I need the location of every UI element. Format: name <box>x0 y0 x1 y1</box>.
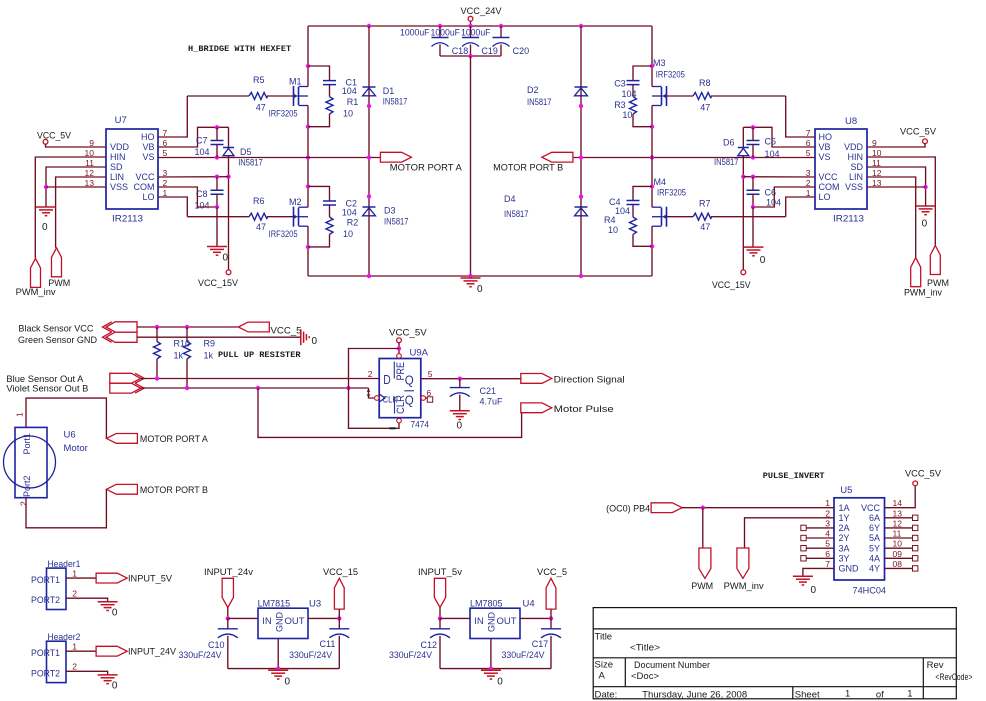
svg-text:5: 5 <box>163 148 168 158</box>
wire D4 branch <box>580 158 582 277</box>
wire C8 top stub <box>216 177 218 191</box>
no-connect square U5 right <box>913 566 918 571</box>
svg-text:VB: VB <box>142 142 154 152</box>
svg-text:U6: U6 <box>64 429 76 440</box>
junction VCC pin / bootstrap <box>226 175 230 179</box>
resistor R7 47 <box>693 213 711 220</box>
wire motor pin2 to port B <box>26 489 106 528</box>
svg-text:HO: HO <box>819 132 833 142</box>
svg-text:IN5817: IN5817 <box>714 157 739 167</box>
svg-text:2A: 2A <box>839 523 850 533</box>
svg-text:13: 13 <box>872 178 882 188</box>
junction R10 bottom <box>155 376 159 380</box>
svg-text:OUT: OUT <box>497 616 517 627</box>
svg-text:0: 0 <box>922 219 928 230</box>
svg-text:SD: SD <box>110 162 123 172</box>
svg-text:M4: M4 <box>654 177 667 187</box>
port INPUT_5v <box>434 578 445 607</box>
bubble CLR pin <box>397 418 402 423</box>
resistor R9 1k <box>184 342 191 359</box>
svg-text:0: 0 <box>223 253 229 264</box>
capacitor C19 1000uF <box>462 37 479 39</box>
junction right rail motor node <box>650 155 654 159</box>
port PWM_inv (U5 side) <box>737 548 749 578</box>
svg-text:0: 0 <box>42 222 48 233</box>
wire R5 to M1 gate <box>267 95 294 97</box>
port MOTOR PORT B (bridge) <box>542 152 573 162</box>
svg-text:C3: C3 <box>614 79 626 89</box>
wire C7 top stub <box>216 127 218 140</box>
wire U5 nc stub right <box>885 527 913 529</box>
svg-text:10: 10 <box>872 148 882 158</box>
wire M2 source to bottom rail <box>307 226 309 276</box>
ground U8 driver <box>744 247 764 256</box>
resistor R3 10 <box>630 97 637 114</box>
svg-text:47: 47 <box>700 222 710 232</box>
wire SD U8 to ground <box>867 167 926 206</box>
wire C2 to R2 <box>329 205 331 217</box>
wire U5 nc stub right <box>885 567 913 569</box>
transistor M1 IRF3205 <box>294 86 299 106</box>
power symbol VCC_5V U5 <box>913 481 918 486</box>
wire D5 anode to VCC_15V <box>228 156 230 270</box>
svg-text:2: 2 <box>806 178 811 188</box>
wire C18 bottom stub <box>439 45 441 57</box>
junction snubber C2 bottom <box>306 245 310 249</box>
junction C10 / IN <box>226 616 230 620</box>
wire HO to R5 <box>187 95 249 97</box>
svg-text:9: 9 <box>89 138 94 148</box>
svg-text:HIN: HIN <box>848 152 864 162</box>
svg-text:1000uF: 1000uF <box>461 28 491 38</box>
port sensor VCC (double arrow left) <box>106 322 137 332</box>
wire R8 to M3 gate <box>667 95 694 97</box>
junction top rail / C20 <box>499 24 503 28</box>
svg-text:5Y: 5Y <box>869 543 880 553</box>
capacitor C3 104 <box>627 81 640 85</box>
svg-text:C17: C17 <box>532 639 549 649</box>
ground U4 <box>481 670 501 679</box>
junction C11 / VCC_15 <box>337 616 341 620</box>
junction motor B / D2 branch <box>579 155 583 159</box>
svg-text:0: 0 <box>312 336 318 347</box>
svg-text:0: 0 <box>112 681 118 692</box>
svg-text:VCC_5V: VCC_5V <box>900 126 936 136</box>
svg-text:INPUT_24V: INPUT_24V <box>128 647 176 657</box>
no-connect square U5 right <box>913 546 918 551</box>
no-connect square U5 left <box>801 535 806 540</box>
ic Header1 box <box>47 568 67 609</box>
ground Header1 <box>98 602 118 611</box>
svg-text:HO: HO <box>141 132 155 142</box>
svg-text:IN: IN <box>262 616 272 627</box>
svg-text:IN5817: IN5817 <box>238 158 263 168</box>
svg-text:R9: R9 <box>204 339 216 349</box>
wire top +24V rail <box>308 25 652 27</box>
svg-text:4.7uF: 4.7uF <box>480 396 504 406</box>
svg-text:104: 104 <box>342 208 357 218</box>
wire U5 nc stub right <box>885 517 913 519</box>
wire R9 top stub <box>186 327 188 342</box>
svg-text:VCC: VCC <box>135 172 155 182</box>
svg-text:OUT: OUT <box>285 616 305 627</box>
port PWM (U8 side) <box>930 246 940 275</box>
jog marks sensor B to CLK <box>368 390 370 397</box>
svg-text:08: 08 <box>893 559 903 569</box>
svg-text:2Y: 2Y <box>839 533 850 543</box>
no-connect square U5 left <box>801 525 806 530</box>
wire C18 top stub <box>439 26 441 38</box>
ic U9A 7474 box <box>379 359 421 418</box>
svg-text:Sheet: Sheet <box>795 689 820 700</box>
svg-text:4Y: 4Y <box>869 564 880 574</box>
wire C7 bottom stub <box>216 145 218 158</box>
wire D5 cathode stub <box>228 127 230 147</box>
svg-text:1000uF: 1000uF <box>400 28 430 38</box>
wire sensor GND to 0 <box>137 336 301 338</box>
junction snubber C2 top <box>306 184 310 188</box>
svg-text:10: 10 <box>622 110 632 120</box>
wire LO U8 to R7 <box>711 216 786 218</box>
svg-text:5: 5 <box>428 369 433 379</box>
wire Q-bar stub <box>426 397 428 399</box>
wire sensor B jog to CLK <box>369 388 375 398</box>
svg-text:PWM: PWM <box>691 581 713 591</box>
svg-text:A: A <box>599 671 606 682</box>
svg-text:1: 1 <box>72 641 77 651</box>
svg-text:0: 0 <box>457 421 463 432</box>
wire C12 bottom stub <box>439 636 441 669</box>
wire M1 source to M2 drain <box>307 106 309 208</box>
svg-text:10: 10 <box>608 225 618 235</box>
wire C17 top stub <box>550 618 552 628</box>
wire D2 branch <box>580 26 582 158</box>
resistor R6 47 <box>249 213 267 220</box>
svg-text:0: 0 <box>497 677 503 688</box>
svg-text:C21: C21 <box>480 386 497 396</box>
wire C4 to R4 <box>632 205 634 218</box>
svg-text:104: 104 <box>766 197 781 207</box>
wire C11 top stub <box>338 618 340 628</box>
bubble CLK pin <box>375 396 380 401</box>
svg-text:Port2: Port2 <box>22 475 32 497</box>
svg-text:104: 104 <box>765 149 780 159</box>
wire VSS to ground node <box>46 186 106 188</box>
svg-text:D6: D6 <box>723 137 735 147</box>
wire C17 bottom stub <box>550 636 552 669</box>
svg-text:1000uF: 1000uF <box>431 28 461 38</box>
wire M4 source to bottom rail <box>651 226 653 276</box>
wire C6 bottom stub <box>752 194 754 207</box>
diode D3 IN5817 <box>363 206 376 208</box>
capacitor C1 104 <box>323 81 336 85</box>
junction R9 top <box>185 325 189 329</box>
capacitor C20 1000uF <box>493 37 510 39</box>
svg-text:LM7805: LM7805 <box>470 599 503 609</box>
svg-text:VCC_5: VCC_5 <box>271 325 302 335</box>
svg-text:1: 1 <box>72 568 77 578</box>
svg-text:C19: C19 <box>481 46 498 56</box>
svg-text:VCC_15: VCC_15 <box>323 567 358 577</box>
svg-text:3: 3 <box>825 518 830 528</box>
svg-text:330uF/24V: 330uF/24V <box>502 650 545 660</box>
svg-text:C5: C5 <box>765 136 777 146</box>
svg-text:3Y: 3Y <box>839 554 850 564</box>
title block frame <box>593 608 956 699</box>
junction C8 bottom / ground <box>215 205 219 209</box>
diode D5 IN5817 <box>223 147 234 149</box>
svg-text:<Title>: <Title> <box>630 643 660 654</box>
svg-text:5: 5 <box>806 148 811 158</box>
wire to U3 IN <box>228 617 258 619</box>
resistor R4 10 <box>630 217 637 234</box>
wire LO U8 down <box>786 197 815 217</box>
svg-text:LM7815: LM7815 <box>258 599 291 609</box>
svg-text:6A: 6A <box>869 513 880 523</box>
svg-text:1k: 1k <box>204 351 214 361</box>
svg-text:104: 104 <box>615 206 630 216</box>
no-connect square Q-bar <box>427 397 432 402</box>
junction snubber C1 bottom <box>306 125 310 129</box>
power symbol VCC_24V <box>468 16 473 21</box>
svg-text:Black Sensor VCC: Black Sensor VCC <box>18 324 93 334</box>
svg-text:1Y: 1Y <box>839 513 850 523</box>
svg-text:D1: D1 <box>383 86 395 96</box>
svg-text:Title: Title <box>595 632 613 643</box>
svg-text:C18: C18 <box>452 46 469 56</box>
junction D1 wire <box>367 104 371 108</box>
ground U8 logic <box>916 206 936 215</box>
wire right rail top to M3 drain <box>651 26 653 87</box>
svg-text:1: 1 <box>806 188 811 198</box>
svg-text:R5: R5 <box>253 75 265 85</box>
svg-text:SD: SD <box>850 162 863 172</box>
wire D6 anode to VCC_15V <box>742 156 744 270</box>
svg-text:C10: C10 <box>208 640 225 650</box>
wire R7 to M4 gate <box>667 216 694 218</box>
svg-text:Port1: Port1 <box>22 433 32 455</box>
wire HO U8 up to gate drive <box>786 96 815 137</box>
capacitor C5 104 <box>747 141 760 145</box>
svg-text:U3: U3 <box>309 599 321 610</box>
wire HIN to PWM_inv <box>35 157 106 258</box>
capacitor C10 330uF/24V <box>218 628 238 630</box>
wire snubber C3 top branch <box>633 66 652 81</box>
wire cap bottom bus <box>440 55 501 57</box>
svg-text:104: 104 <box>622 89 637 99</box>
motor circle U6 <box>4 436 56 488</box>
wire Header2 pin1 to INPUT_24V <box>66 650 96 652</box>
wire HO U8 to R8 <box>711 95 786 97</box>
svg-text:1: 1 <box>825 498 830 508</box>
svg-text:R4: R4 <box>604 215 616 225</box>
ic U3 LM7815 box <box>258 608 308 638</box>
wire 1Y to PWM_inv <box>745 518 835 548</box>
port INPUT_5V <box>96 573 127 583</box>
svg-text:12: 12 <box>85 168 95 178</box>
wire U5 nc stub left <box>807 537 835 539</box>
svg-text:6: 6 <box>825 549 830 559</box>
wire PRE-CLR tie loop <box>349 349 400 429</box>
junction top rail / VCC <box>468 24 472 28</box>
junction VCC pin U8 / bootstrap <box>741 175 745 179</box>
wire VCC U5 to VCC_5V <box>885 486 916 508</box>
port (OC0) PB4 <box>651 503 682 513</box>
wire snubber R2 bottom branch <box>308 234 330 247</box>
junction C7 top <box>215 125 219 129</box>
svg-text:0: 0 <box>285 677 291 688</box>
wire U5 nc stub right <box>885 537 913 539</box>
wire COM to C8 bottom <box>158 187 217 207</box>
svg-text:10: 10 <box>85 148 95 158</box>
ic U7 IR2113 box <box>106 129 158 209</box>
ground U3 <box>268 670 288 679</box>
svg-text:M1: M1 <box>289 77 302 87</box>
svg-text:PWM_inv: PWM_inv <box>16 287 57 297</box>
svg-text:VCC_24V: VCC_24V <box>461 6 502 16</box>
wire VSS U8 to ground node <box>867 186 926 188</box>
junction top rail / D2 <box>579 24 583 28</box>
svg-text:<Doc>: <Doc> <box>631 671 659 682</box>
wire COM U8 to C6 bottom <box>753 187 815 207</box>
junction C6 bottom / ground <box>751 205 755 209</box>
svg-text:10: 10 <box>893 539 903 549</box>
port VCC_15 <box>334 578 344 609</box>
ground Header2 <box>98 675 118 684</box>
wire Q to Direction Signal <box>421 378 522 380</box>
wire Header1 pin2 to ground <box>66 598 108 602</box>
wire sensor A to D input <box>141 378 379 380</box>
resistor R8 47 <box>693 93 711 100</box>
svg-text:7: 7 <box>825 559 830 569</box>
capacitor C12 330uF/24V <box>430 628 450 630</box>
capacitor C8 104 <box>211 190 224 194</box>
svg-text:of: of <box>876 689 884 700</box>
svg-text:IRF3205: IRF3205 <box>656 70 685 80</box>
wire sensor B line <box>141 387 369 389</box>
svg-text:U7: U7 <box>115 115 127 126</box>
junction R9 bottom <box>185 386 189 390</box>
svg-text:PORT1: PORT1 <box>31 648 60 658</box>
svg-text:330uF/24V: 330uF/24V <box>389 650 432 660</box>
svg-text:0: 0 <box>477 284 483 295</box>
svg-text:PWM: PWM <box>48 278 70 288</box>
svg-text:VSS: VSS <box>845 182 863 192</box>
svg-text:Size: Size <box>595 660 613 671</box>
svg-text:Direction Signal: Direction Signal <box>554 375 625 385</box>
port sensor Out B (double arrow right) <box>110 383 141 393</box>
svg-text:IN: IN <box>474 616 484 627</box>
svg-text:IN5817: IN5817 <box>383 96 408 106</box>
svg-text:LIN: LIN <box>110 172 124 182</box>
svg-text:VCC_5V: VCC_5V <box>389 328 427 338</box>
wire sensor VCC to VCC_5 <box>137 326 238 328</box>
wire LO to R6 <box>187 216 249 218</box>
junction PRE tie <box>397 346 401 350</box>
wire U5 nc stub left <box>807 527 835 529</box>
junction C5 bottom <box>751 155 755 159</box>
svg-text:D5: D5 <box>240 147 252 157</box>
port VCC_5 <box>238 322 269 332</box>
power symbol VCC_5V U9A <box>397 338 402 343</box>
wire C8 bottom stub <box>216 194 218 207</box>
wire snubber R4 bottom branch <box>633 234 652 246</box>
svg-text:HIN: HIN <box>110 152 126 162</box>
svg-text:GND: GND <box>274 612 284 633</box>
port PWM (U5 side) <box>699 548 711 578</box>
wire INPUT_24v drop <box>227 608 229 619</box>
diode D1 IN5817 <box>363 86 376 88</box>
wire R6 to M2 gate <box>267 216 294 218</box>
svg-text:2: 2 <box>72 662 77 672</box>
svg-text:5: 5 <box>825 539 830 549</box>
wire C19 top stub <box>470 26 472 38</box>
no-connect square U5 right <box>913 535 918 540</box>
resistor R1 10 <box>326 97 333 114</box>
svg-text:D2: D2 <box>527 85 539 95</box>
port PWM_inv (U8 side) <box>911 258 921 287</box>
wire VS motor A line <box>158 157 380 159</box>
wire M3 source to M4 drain <box>651 106 653 208</box>
svg-text:LO: LO <box>819 192 831 202</box>
svg-text:IRF3205: IRF3205 <box>657 187 686 197</box>
port VCC_5 (regulator) <box>546 578 556 609</box>
svg-text:7: 7 <box>163 128 168 138</box>
wire SD to ground <box>46 167 106 207</box>
capacitor C2 104 <box>323 201 336 205</box>
svg-text:VCC: VCC <box>819 172 839 182</box>
wire VCC pin U8 <box>743 176 815 178</box>
svg-text:Date:: Date: <box>595 689 618 700</box>
svg-text:5A: 5A <box>869 533 880 543</box>
svg-text:47: 47 <box>256 222 266 232</box>
svg-text:VSS: VSS <box>110 182 128 192</box>
diode D4 IN5817 <box>575 206 588 208</box>
port PWM (U7 side) <box>52 248 62 277</box>
clock triangle U9A <box>379 394 385 402</box>
no-connect square U5 right <box>913 515 918 520</box>
svg-text:PORT1: PORT1 <box>31 575 60 585</box>
junction D2 wire <box>579 104 583 108</box>
svg-text:VCC_15V: VCC_15V <box>712 280 751 290</box>
wire C5 top stub <box>752 127 754 140</box>
svg-text:D: D <box>383 372 391 387</box>
svg-text:VCC_5: VCC_5 <box>537 567 567 577</box>
wire U3 GND pin drop <box>277 639 279 669</box>
wire GND U5 <box>803 568 834 576</box>
wire PB4 to 1A <box>682 507 834 509</box>
svg-text:C11: C11 <box>320 639 336 649</box>
svg-text:VCC_5V: VCC_5V <box>37 131 71 141</box>
wire VDD U8 to VCC_5V <box>867 144 925 147</box>
wire C3 to R3 <box>632 85 634 97</box>
wire U3 ground rail <box>228 668 339 670</box>
ic U8 IR2113 box <box>815 129 867 209</box>
wire C10 top stub <box>227 618 229 628</box>
junction bottom rail / D3 <box>367 274 371 278</box>
svg-text:9: 9 <box>872 138 877 148</box>
transistor M2 IRF3205 <box>294 207 299 227</box>
svg-text:INPUT_5V: INPUT_5V <box>128 574 172 584</box>
svg-text:PULL UP RESISTER: PULL UP RESISTER <box>218 350 301 360</box>
svg-text:U8: U8 <box>845 116 857 127</box>
port MOTOR PORT B (motor) <box>106 484 137 494</box>
wire PWM drop <box>702 508 704 548</box>
wire left rail top to M1 drain <box>307 26 309 87</box>
wire VCC pin U7 <box>158 176 229 178</box>
wire C12 top stub <box>439 618 441 628</box>
svg-text:1k: 1k <box>174 351 184 361</box>
